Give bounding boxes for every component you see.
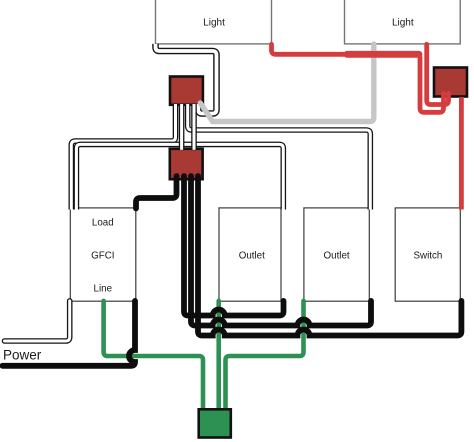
wire: green ground, outlet 2 to ground bus	[226, 301, 304, 411]
wire: white neutral, Light1 to nut A (J hook)	[156, 44, 217, 114]
outlet 2 box	[304, 208, 369, 301]
outlet 1 box	[219, 208, 281, 301]
wire: black hot, nut B to outlet 2 bottom (hops greens)	[191, 176, 371, 326]
wire: black hot, nut B to outlet 1 bottom (hops green)	[184, 176, 284, 316]
wire: black hot, nut B to switch bottom (hops greens)	[198, 176, 461, 336]
light fixture L2 box	[345, 0, 461, 44]
svg-text:Line: Line	[94, 284, 113, 295]
svg-text:Light: Light	[392, 18, 414, 29]
wire nut A (neutral splice, top)	[170, 77, 203, 105]
svg-text:Load: Load	[92, 217, 114, 228]
light fixture L1 box	[156, 0, 272, 44]
switch box	[395, 208, 460, 301]
svg-text:Switch: Switch	[413, 250, 442, 261]
wire: white neutral, power feed to GFCI line bottom-left	[5, 301, 70, 341]
svg-text:GFCI: GFCI	[91, 251, 114, 262]
wire: gray switched neutral, Light2 to nut A	[200, 44, 373, 122]
ground bus box (green)	[199, 409, 231, 437]
wire: green ground, outlet 1 to ground bus	[216, 301, 221, 411]
svg-text:Light: Light	[203, 18, 225, 29]
svg-text:Outlet: Outlet	[239, 250, 265, 261]
wire: white neutral, GFCI load top to outlet 1 top	[76, 144, 283, 209]
svg-text:Power: Power	[3, 347, 42, 362]
wire: red switched hot, nut C to switch top	[459, 97, 464, 210]
svg-text:Outlet: Outlet	[324, 250, 350, 261]
wire: red hot overlap segment (double red run under Light2)	[347, 51, 419, 58]
wire: white, nut A pin2 to nut B	[179, 104, 185, 150]
wire nut C (switch loop splice, top right)	[434, 68, 467, 97]
wire: red hot, Light2 to nut C	[427, 44, 449, 104]
wire: green ground, GFCI to ground bus	[104, 301, 203, 411]
wire: red hot, Light1 to nut C	[272, 44, 444, 112]
wire: white, nut A pin4 to nut B	[191, 104, 197, 150]
GFCI receptacle box	[70, 208, 136, 301]
wire: black hot, nut B to GFCI load top-right	[136, 176, 177, 209]
wire: white neutral, nut A pin1 to GFCI load top-left	[71, 104, 175, 210]
wire: white neutral, nut A pin3 to outlet 2 top	[188, 104, 371, 210]
wire: black hot, power feed to GFCI line bottom-right (hops green)	[3, 301, 136, 366]
wire nut B (hot splice)	[170, 149, 203, 179]
